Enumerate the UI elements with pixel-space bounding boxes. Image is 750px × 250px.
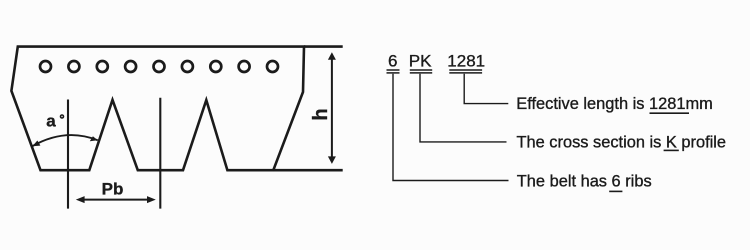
underline of K bbox=[664, 149, 679, 151]
underline of 6 bbox=[609, 190, 622, 192]
cord circle 7 bbox=[210, 61, 221, 72]
cord circle 1 bbox=[40, 61, 51, 72]
cord circle 5 bbox=[154, 61, 165, 72]
leader line from 6 bbox=[393, 74, 509, 181]
double underline under 6 bbox=[387, 69, 400, 71]
svg-text:PK: PK bbox=[409, 52, 432, 71]
angle arc arrowhead right bbox=[90, 136, 98, 141]
angle arc arrowhead left bbox=[32, 141, 40, 147]
svg-text:The cross section is K profile: The cross section is K profile bbox=[517, 134, 727, 152]
leader line from 1281 bbox=[464, 74, 508, 104]
cord circle 8 bbox=[239, 61, 250, 72]
Pb dimension arrowhead left bbox=[76, 196, 85, 203]
svg-text:Pb: Pb bbox=[102, 180, 124, 199]
underline of 1281 bbox=[650, 112, 690, 114]
Pb dimension line bbox=[83, 199, 149, 201]
h dimension line bbox=[331, 58, 333, 159]
h top extension line bbox=[304, 45, 343, 48]
belt cross-section outline bbox=[11, 47, 304, 171]
svg-text:The belt has 6 ribs: The belt has 6 ribs bbox=[517, 173, 652, 191]
svg-text:h: h bbox=[310, 108, 332, 120]
svg-text:Effective length is 1281mm: Effective length is 1281mm bbox=[516, 95, 713, 113]
svg-text:6: 6 bbox=[388, 52, 397, 71]
cord circle 6 bbox=[182, 61, 193, 72]
h bottom extension line bbox=[273, 169, 343, 172]
Pb dimension arrowhead right bbox=[147, 196, 156, 203]
angle a arc bbox=[32, 135, 97, 146]
cord circle 2 bbox=[68, 61, 79, 72]
leader line from PK bbox=[420, 74, 507, 142]
cord circle 9 bbox=[267, 61, 278, 72]
h dimension arrowhead bottom bbox=[328, 156, 336, 164]
degree mark bbox=[61, 115, 64, 118]
cord circle 4 bbox=[125, 61, 136, 72]
h dimension arrowhead top bbox=[328, 52, 336, 60]
centerline left (rib pitch datum) bbox=[67, 100, 69, 209]
svg-text:1281: 1281 bbox=[447, 52, 485, 71]
double underline under PK bbox=[410, 69, 432, 71]
svg-text:a: a bbox=[46, 111, 56, 130]
cord circle 3 bbox=[97, 61, 108, 72]
double underline under 1281 bbox=[449, 69, 482, 71]
centerline right (rib pitch datum) bbox=[159, 98, 161, 209]
